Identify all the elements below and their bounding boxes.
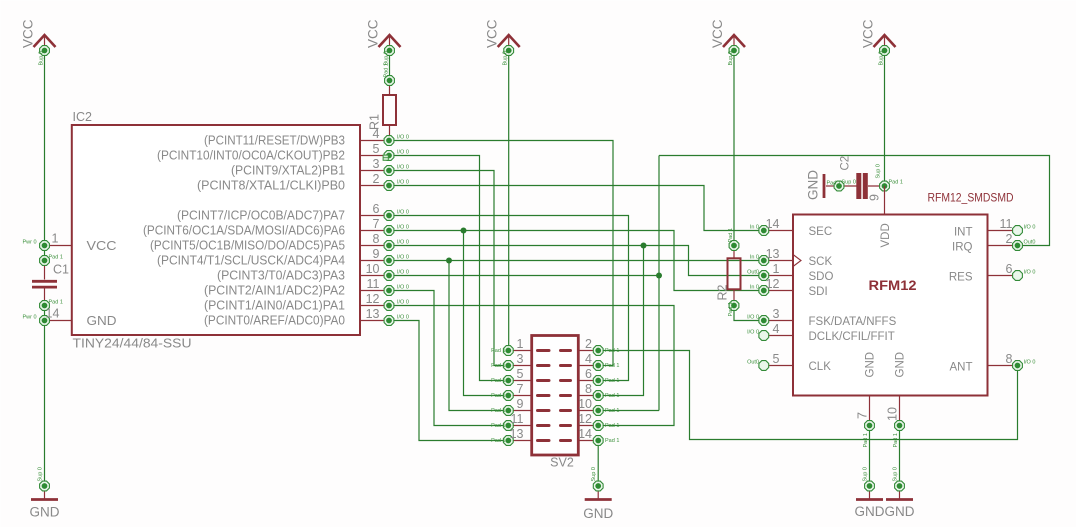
svg-text:6: 6	[1006, 262, 1013, 276]
RFM12 pin 10 GND (bottom)	[886, 352, 907, 448]
svg-text:Out0: Out0	[747, 360, 759, 366]
RFM12 pin 2 IRQ	[952, 232, 1035, 254]
wire PB1 to SV2 pin3	[389, 171, 508, 366]
svg-text:Pad 1: Pad 1	[889, 180, 903, 186]
wire PA6 branch to SV2 pin7	[464, 231, 509, 396]
svg-text:3: 3	[517, 352, 524, 366]
svg-text:10: 10	[366, 262, 380, 276]
SV2 pin 10	[561, 397, 620, 415]
svg-text:13: 13	[510, 427, 524, 441]
svg-text:I/O 0: I/O 0	[747, 330, 759, 336]
svg-text:I/O 0: I/O 0	[397, 300, 409, 306]
wire PA3 net to SV2 pin10	[598, 410, 659, 412]
RFM12 pin 3 FSK/DATA/NFFS	[747, 307, 896, 328]
junction PA3 / SV2 pin10 / IRQ	[656, 273, 662, 279]
svg-text:I/O 0: I/O 0	[397, 285, 409, 291]
svg-text:RES: RES	[949, 272, 973, 284]
svg-text:GND: GND	[895, 352, 907, 378]
svg-text:INT: INT	[954, 227, 973, 239]
wire PA1 to SV2 pin12	[389, 306, 674, 426]
wire RFM12 GND pin10 to GND	[899, 426, 901, 487]
svg-text:Pwr 0: Pwr 0	[22, 315, 36, 321]
svg-text:8: 8	[585, 382, 592, 396]
svg-text:Pwr 0: Pwr 0	[22, 240, 36, 246]
svg-text:SCK: SCK	[809, 256, 833, 268]
junction PA4 / SV2 pin9	[446, 258, 452, 264]
svg-text:DCLK/CFIL/FFIT: DCLK/CFIL/FFIT	[809, 331, 895, 343]
svg-text:4: 4	[373, 127, 380, 141]
RFM12 pin 1 SDO	[747, 262, 833, 283]
svg-text:Bup 0: Bup 0	[728, 51, 734, 65]
svg-text:2: 2	[585, 337, 592, 351]
wire C1 to IC2 pin14 to GND	[44, 306, 46, 487]
wire PA3 net to RFM12 IRQ pin2	[659, 156, 1050, 246]
svg-text:8: 8	[373, 232, 380, 246]
svg-text:R2: R2	[716, 284, 730, 300]
SV2 pin 4	[561, 352, 620, 370]
svg-text:I/O 0: I/O 0	[397, 270, 409, 276]
ground GND (below RFM12 pin7)	[855, 467, 885, 519]
wire VCC to SV2 pin1	[508, 51, 510, 351]
svg-text:9: 9	[517, 397, 524, 411]
svg-text:11: 11	[367, 277, 380, 291]
svg-text:Pad 1: Pad 1	[605, 378, 619, 384]
svg-text:FSK/DATA/NFFS: FSK/DATA/NFFS	[809, 316, 897, 328]
svg-text:14: 14	[578, 427, 592, 441]
svg-text:Pad 1: Pad 1	[605, 438, 619, 444]
supply VCC (above SV2 pin1)	[485, 19, 520, 65]
svg-text:VCC: VCC	[861, 19, 876, 48]
IC2 pin 2 PB0	[197, 172, 409, 193]
svg-text:1: 1	[517, 337, 524, 351]
svg-text:Bup 0: Bup 0	[39, 51, 45, 65]
svg-text:6: 6	[373, 202, 380, 216]
resistor R1	[368, 63, 397, 140]
svg-text:Pad 1: Pad 1	[605, 393, 619, 399]
svg-text:9: 9	[868, 194, 882, 201]
SV2 pin 12	[561, 412, 620, 430]
svg-text:I/O 0: I/O 0	[397, 255, 409, 261]
IC2 part origin marker	[383, 155, 388, 160]
wire VCC to R2	[733, 51, 735, 246]
wire PA2 to SV2 pin11	[389, 291, 508, 426]
svg-text:Sup 0: Sup 0	[876, 164, 882, 178]
svg-text:GND: GND	[855, 504, 885, 519]
svg-text:I/O 0: I/O 0	[397, 240, 409, 246]
svg-text:In 0: In 0	[750, 255, 759, 261]
svg-text:8: 8	[1006, 352, 1013, 366]
wire PB3 to SV2 pin4	[389, 141, 613, 366]
svg-text:Pad 1: Pad 1	[893, 433, 899, 447]
svg-text:GND: GND	[30, 505, 60, 520]
svg-text:5: 5	[773, 352, 780, 366]
RFM12 pin 6 RES	[949, 262, 1036, 284]
RFM12 pin 11 INT	[954, 217, 1035, 239]
RFM12 pin 9 VDD (top)	[868, 186, 893, 248]
svg-text:7: 7	[856, 412, 870, 419]
wire SV2 pin2 to RFM12 ANT pin8	[598, 351, 1017, 440]
svg-text:Pad 1: Pad 1	[491, 348, 505, 354]
svg-text:C1: C1	[53, 263, 69, 277]
svg-text:CLK: CLK	[809, 361, 832, 373]
wire VCC to C2 and RFM12 VDD pin9	[884, 51, 886, 187]
svg-text:RFM12: RFM12	[869, 278, 917, 293]
svg-text:GND: GND	[885, 504, 915, 519]
RFM12 pin 12 SDI	[750, 277, 828, 298]
svg-text:Pad 1: Pad 1	[491, 363, 505, 369]
svg-text:VCC: VCC	[21, 19, 36, 48]
svg-text:IC2: IC2	[73, 110, 93, 124]
svg-text:I/O 0: I/O 0	[397, 180, 409, 186]
svg-text:10: 10	[886, 407, 900, 421]
svg-text:12: 12	[766, 277, 780, 291]
SV2 pin 8	[561, 382, 620, 400]
IC2 pin 13 PA0	[204, 307, 409, 328]
wire PA4 branch to SV2 pin9	[449, 261, 508, 411]
svg-text:Pad 1: Pad 1	[605, 423, 619, 429]
supply VCC (above C2 / RFM12 VDD)	[861, 19, 896, 65]
IC2 pin 6 PA7	[177, 202, 409, 223]
IC2 pin 1 VCC	[22, 232, 116, 254]
svg-text:In 0: In 0	[750, 285, 759, 291]
svg-text:5: 5	[517, 367, 524, 381]
SV2 pin 13	[491, 427, 549, 445]
IC2 pin 10 PA3	[217, 262, 409, 283]
SV2 pin 2	[561, 337, 620, 355]
svg-text:Pad 1: Pad 1	[49, 300, 63, 306]
svg-text:14: 14	[46, 307, 60, 321]
svg-text:RFM12_SMDSMD: RFM12_SMDSMD	[928, 193, 1014, 205]
IC2 pin 5 PB2	[157, 142, 409, 163]
svg-text:11: 11	[511, 412, 524, 426]
svg-text:I/O 0: I/O 0	[397, 210, 409, 216]
svg-text:(PCINT0/AREF/ADC0)PA0: (PCINT0/AREF/ADC0)PA0	[204, 314, 345, 328]
svg-text:Pad 1: Pad 1	[491, 408, 505, 414]
svg-text:2: 2	[373, 172, 380, 186]
svg-text:I/O 0: I/O 0	[1024, 225, 1036, 231]
IC RFM12 body	[793, 193, 1014, 396]
svg-text:14: 14	[766, 217, 780, 231]
capacitor C1	[32, 255, 69, 311]
IC2 pin 7 PA6	[143, 217, 409, 238]
ground GND (bottom left)	[30, 467, 60, 519]
svg-text:VCC: VCC	[710, 19, 725, 48]
svg-text:11: 11	[1000, 217, 1013, 231]
ground GND (below RFM12 pin10)	[885, 467, 915, 519]
svg-text:(PCINT2/AIN1/ADC2)PA2: (PCINT2/AIN1/ADC2)PA2	[204, 284, 345, 298]
supply VCC (left, net to IC2 pin1)	[21, 19, 56, 65]
svg-text:Sup 0: Sup 0	[591, 467, 597, 481]
RFM12 pin 8 ANT	[950, 352, 1036, 374]
svg-text:I/O 0: I/O 0	[1024, 270, 1036, 276]
svg-text:TINY24/44/84-SSU: TINY24/44/84-SSU	[73, 337, 192, 351]
svg-text:(PCINT10/INT0/OC0A/CKOUT)PB2: (PCINT10/INT0/OC0A/CKOUT)PB2	[157, 149, 345, 163]
wire PA5 branch to SV2 pin8	[598, 246, 643, 396]
wire VCC to IC2 pin1 and C1	[44, 51, 46, 261]
wire PA5 to RFM12 SDO pin1	[389, 246, 764, 276]
SV2 pin 7	[491, 382, 549, 400]
wire SV2 pin14 to GND	[597, 441, 599, 487]
svg-text:3: 3	[773, 307, 780, 321]
svg-text:(PCINT11/RESET/DW)PB3: (PCINT11/RESET/DW)PB3	[204, 134, 345, 148]
svg-text:GND: GND	[865, 352, 877, 378]
SV2 pin 3	[491, 352, 549, 370]
svg-text:7: 7	[373, 217, 380, 231]
SV2 pin 9	[491, 397, 549, 415]
svg-text:Sup 0: Sup 0	[893, 467, 899, 481]
IC2 pin 8 PA5	[150, 232, 409, 253]
SV2 pin 1	[491, 337, 549, 355]
wire PA3 to riser	[389, 275, 659, 277]
svg-text:Sup 0: Sup 0	[863, 467, 869, 481]
svg-text:12: 12	[578, 412, 592, 426]
wire RFM12 GND pin7 to GND	[869, 426, 871, 487]
svg-text:Pad 1: Pad 1	[827, 181, 841, 187]
junction PA5 / SV2 pin8	[641, 243, 647, 249]
svg-text:1: 1	[773, 262, 780, 276]
RFM12 pin 14 SEC	[750, 217, 832, 238]
svg-text:I/O 0: I/O 0	[397, 135, 409, 141]
wire PB0 to RFM12 SEC pin14	[389, 186, 764, 231]
RFM12 SCK clock wedge	[793, 255, 801, 267]
svg-text:12: 12	[366, 292, 380, 306]
IC2 pin 11 PA2	[204, 277, 409, 298]
wire R2 to RFM12 FSK pin3	[734, 306, 764, 321]
svg-text:5: 5	[373, 142, 380, 156]
svg-text:Pad 1: Pad 1	[728, 302, 734, 316]
wire VCC to R1	[389, 51, 391, 81]
wire PB2 to SV2 pin5	[389, 156, 508, 381]
svg-text:I/O 0: I/O 0	[1024, 360, 1036, 366]
svg-text:ANT: ANT	[950, 362, 973, 374]
svg-text:13: 13	[766, 247, 780, 261]
SV2 pin 11	[491, 412, 549, 430]
svg-text:VCC: VCC	[485, 19, 500, 48]
svg-text:In 0: In 0	[750, 225, 759, 231]
svg-text:I/O 0: I/O 0	[397, 225, 409, 231]
wire PA6 to RFM12 SDI pin12	[389, 231, 764, 291]
IC2 pin 12 PA1	[204, 292, 409, 313]
svg-text:Out0: Out0	[1024, 240, 1036, 246]
svg-text:Pad 1: Pad 1	[49, 255, 63, 261]
svg-text:VDD: VDD	[880, 223, 892, 247]
svg-text:(PCINT9/XTAL2)PB1: (PCINT9/XTAL2)PB1	[231, 164, 345, 178]
svg-text:SDI: SDI	[809, 286, 828, 298]
ground GND (rotated, at C2)	[806, 170, 840, 200]
svg-text:I/O 0: I/O 0	[397, 150, 409, 156]
svg-text:10: 10	[578, 397, 592, 411]
svg-text:Sup 0: Sup 0	[842, 180, 856, 186]
svg-text:Pad 1: Pad 1	[605, 348, 619, 354]
svg-text:I/O 0: I/O 0	[747, 315, 759, 321]
svg-text:4: 4	[585, 352, 592, 366]
svg-text:Pad 1: Pad 1	[491, 378, 505, 384]
capacitor C2	[827, 156, 903, 199]
svg-text:Pad 1: Pad 1	[863, 433, 869, 447]
svg-text:GND: GND	[87, 314, 117, 328]
RFM12 pin 4 DCLK/CFIL/FFIT	[747, 322, 895, 343]
SV2 pin 6	[561, 367, 620, 385]
svg-text:Sup 0: Sup 0	[38, 467, 44, 481]
svg-text:SEC: SEC	[809, 226, 833, 238]
svg-text:Pad 1: Pad 1	[605, 408, 619, 414]
supply VCC (above R2)	[710, 19, 745, 65]
wire PA4 to RFM12 SCK pin13	[389, 260, 764, 262]
RFM12 pin 7 GND (bottom)	[856, 352, 877, 448]
svg-text:(PCINT6/OC1A/SDA/MOSI/ADC6)PA6: (PCINT6/OC1A/SDA/MOSI/ADC6)PA6	[143, 224, 345, 238]
wire PA7 to SV2 pin6	[389, 216, 629, 381]
junction PA6 / SV2 pin7	[461, 228, 467, 234]
svg-text:Bup 0: Bup 0	[879, 51, 885, 65]
svg-text:(PCINT1/AIN0/ADC1)PA1: (PCINT1/AIN0/ADC1)PA1	[204, 299, 345, 313]
svg-text:VCC: VCC	[87, 239, 117, 253]
svg-text:GND: GND	[806, 170, 821, 200]
svg-text:C2: C2	[840, 156, 852, 171]
svg-text:(PCINT3/T0/ADC3)PA3: (PCINT3/T0/ADC3)PA3	[217, 269, 345, 283]
svg-text:7: 7	[517, 382, 524, 396]
resistor R2	[716, 228, 741, 316]
svg-text:(PCINT5/OC1B/MISO/DO/ADC5)PA5: (PCINT5/OC1B/MISO/DO/ADC5)PA5	[150, 239, 345, 253]
svg-text:Pad 1: Pad 1	[728, 228, 734, 242]
svg-text:I/O 0: I/O 0	[397, 165, 409, 171]
IC2 pin 3 PB1	[231, 157, 409, 178]
svg-text:6: 6	[585, 367, 592, 381]
svg-text:GND: GND	[583, 506, 613, 521]
svg-text:Out0: Out0	[747, 270, 759, 276]
IC2 pin 14 GND	[22, 307, 116, 329]
svg-text:Pad 1: Pad 1	[491, 438, 505, 444]
svg-text:SV2: SV2	[550, 456, 574, 470]
svg-text:Pad 1: Pad 1	[605, 363, 619, 369]
svg-text:2: 2	[1006, 232, 1013, 246]
svg-text:Pad 1: Pad 1	[384, 63, 390, 77]
IC2 pin 9 PA4	[157, 247, 409, 268]
svg-text:1: 1	[52, 232, 59, 246]
svg-text:3: 3	[373, 157, 380, 171]
svg-text:(PCINT7/ICP/OC0B/ADC7)PA7: (PCINT7/ICP/OC0B/ADC7)PA7	[177, 209, 345, 223]
svg-text:Pad 1: Pad 1	[491, 423, 505, 429]
svg-text:Pad 1: Pad 1	[491, 393, 505, 399]
svg-text:IRQ: IRQ	[952, 242, 973, 254]
supply VCC (above R1)	[366, 19, 401, 65]
wire riser PA3 net vertical	[658, 156, 660, 411]
svg-text:13: 13	[366, 307, 380, 321]
svg-text:VCC: VCC	[366, 19, 381, 48]
svg-text:SDO: SDO	[809, 271, 834, 283]
IC U IC2 TINY24/44/84-SSU body	[72, 110, 360, 351]
svg-text:9: 9	[373, 247, 380, 261]
connector SV2 body	[532, 336, 579, 470]
wire PA0 to SV2 pin13	[389, 321, 508, 441]
SV2 pin 5	[491, 367, 549, 385]
svg-text:4: 4	[773, 322, 780, 336]
svg-text:(PCINT4/T1/SCL/USCK/ADC4)PA4: (PCINT4/T1/SCL/USCK/ADC4)PA4	[157, 254, 345, 268]
IC2 pin 4 PB3	[204, 127, 409, 148]
RFM12 pin 13 SCK	[750, 247, 833, 268]
svg-text:I/O 0: I/O 0	[397, 315, 409, 321]
SV2 pin 14	[561, 427, 620, 445]
svg-text:(PCINT8/XTAL1/CLKI)PB0: (PCINT8/XTAL1/CLKI)PB0	[197, 179, 345, 193]
ground GND (below SV2 pin14)	[583, 467, 613, 521]
RFM12 pin 5 CLK	[747, 352, 831, 373]
svg-text:Bup 0: Bup 0	[503, 51, 509, 65]
